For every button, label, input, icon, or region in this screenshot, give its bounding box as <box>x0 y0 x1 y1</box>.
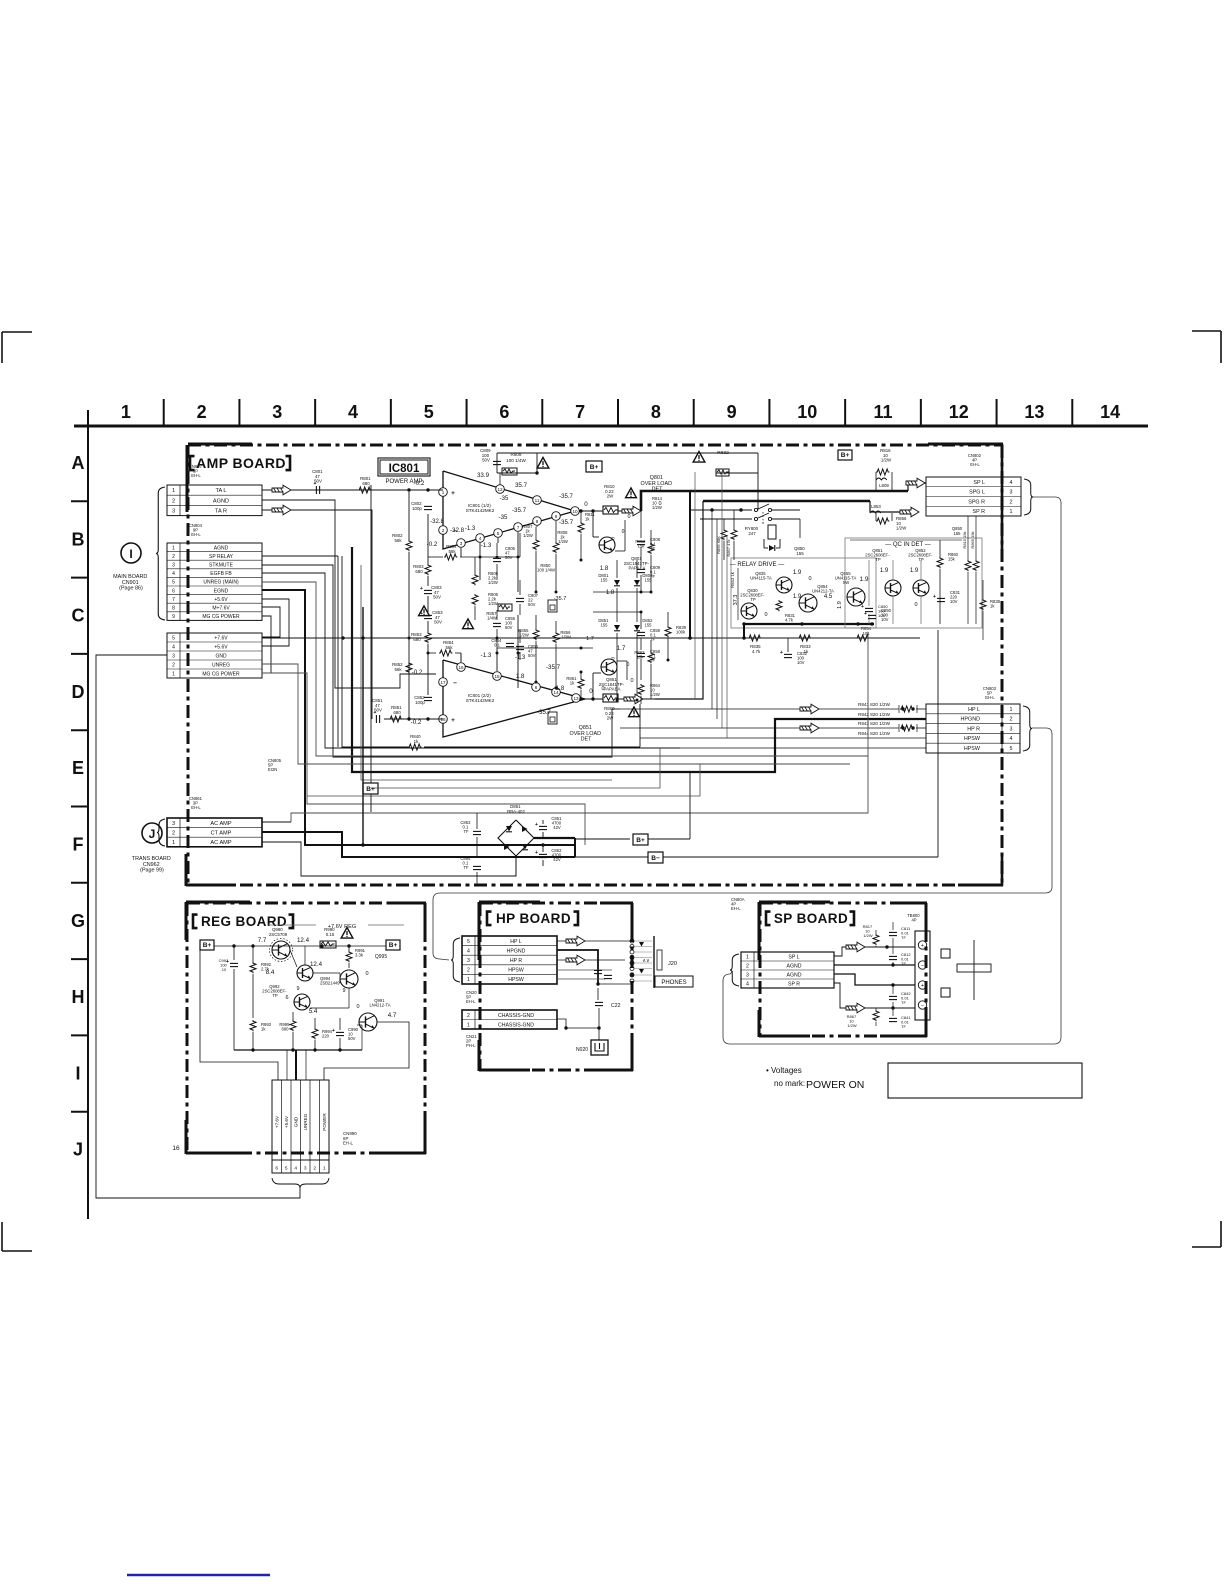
arrow TA R <box>272 505 291 515</box>
resistor R854c <box>856 635 869 641</box>
svg-text:-35.7: -35.7 <box>559 519 574 526</box>
svg-text:6: 6 <box>285 995 288 1001</box>
relay contact upper <box>690 509 752 511</box>
wire vertical x356 <box>355 572 357 574</box>
wire lower output <box>580 698 603 700</box>
capacitor C22 <box>597 988 599 1000</box>
svg-text:0: 0 <box>764 612 767 618</box>
svg-text:+7.6V: +7.6V <box>275 1115 280 1128</box>
warning mark R810 <box>626 488 637 498</box>
svg-text:R841 820 1/2W: R841 820 1/2W <box>858 702 891 707</box>
svg-text:SP R: SP R <box>788 982 800 988</box>
svg-text:0: 0 <box>622 529 625 535</box>
svg-text:3: 3 <box>172 821 175 827</box>
svg-text:+: + <box>535 850 538 856</box>
svg-text:SP R: SP R <box>973 509 986 515</box>
svg-text:5: 5 <box>424 402 434 422</box>
capacitor C853 <box>424 614 432 616</box>
SP BOARD outline <box>760 902 926 905</box>
diode D852 <box>634 625 640 631</box>
warning mark R832 <box>693 452 705 463</box>
wire EGND thick <box>262 590 530 845</box>
transistor Q801 <box>599 537 615 553</box>
arrow SP L out <box>846 942 865 952</box>
net label B+ top <box>586 461 602 472</box>
diode D802 <box>636 560 638 578</box>
svg-text:4: 4 <box>172 645 175 651</box>
transistor Q990 <box>272 941 290 959</box>
wire rail 788 <box>324 748 326 788</box>
svg-text:6: 6 <box>275 1166 278 1172</box>
resistor R864 <box>638 684 644 695</box>
svg-text:11: 11 <box>873 402 892 422</box>
warning mark R860 <box>629 707 640 717</box>
wire y612 tie <box>593 611 641 613</box>
resistor R809 fusible <box>502 468 517 475</box>
svg-text:9: 9 <box>296 986 299 992</box>
wire pin6 rise <box>535 682 537 687</box>
svg-text:I: I <box>129 547 132 561</box>
resistor R995 <box>290 1020 296 1031</box>
HP BOARD title <box>487 912 492 926</box>
wire bottom connect <box>640 703 642 705</box>
svg-text:0: 0 <box>584 501 588 508</box>
grid ruler top <box>74 425 1148 428</box>
svg-text:+5.6V: +5.6V <box>284 1115 289 1128</box>
svg-text:7: 7 <box>517 525 520 530</box>
svg-text:4: 4 <box>1010 480 1013 486</box>
svg-text:35.7: 35.7 <box>515 482 528 489</box>
svg-text:1.8: 1.8 <box>600 565 609 572</box>
wire rail to relay <box>757 473 759 510</box>
wire CN802 to SP BOARD cable <box>723 497 1061 1044</box>
capacitor C812 <box>889 955 897 957</box>
svg-text:13: 13 <box>573 696 579 701</box>
resistor R831 <box>776 600 782 611</box>
wire SP R thick <box>655 501 703 699</box>
connector CN990 <box>272 1080 329 1160</box>
svg-text:4.7: 4.7 <box>388 1012 397 1019</box>
svg-text:16: 16 <box>458 665 464 670</box>
svg-text:B+: B+ <box>590 464 599 471</box>
arrow HP L feed <box>800 704 819 714</box>
resistor R994 <box>312 1028 318 1039</box>
svg-text:1: 1 <box>172 545 175 551</box>
svg-text:R809: R809 <box>511 452 522 457</box>
svg-text:HP R: HP R <box>967 726 980 732</box>
resistor R866 <box>876 518 889 524</box>
wire pin5 drop <box>497 538 499 543</box>
svg-text:6: 6 <box>499 402 509 422</box>
wire rail 780 <box>611 757 613 780</box>
resistors R856b R857b <box>721 529 727 540</box>
svg-text:HP R: HP R <box>510 958 523 964</box>
svg-text:-35.7: -35.7 <box>554 596 567 602</box>
svg-text:2: 2 <box>442 528 445 533</box>
brace CN20 <box>451 938 460 982</box>
svg-text:AGND: AGND <box>214 545 229 551</box>
capacitor C990 <box>336 1031 344 1033</box>
svg-text:2: 2 <box>172 498 175 504</box>
wire pin8 drop <box>536 526 538 527</box>
svg-text:4: 4 <box>172 571 175 577</box>
IC801 pins lower <box>439 678 448 687</box>
capacitor hp1 <box>594 969 602 971</box>
svg-text:0: 0 <box>356 1004 359 1010</box>
svg-text:9: 9 <box>172 614 175 620</box>
wire SP L path <box>834 947 868 956</box>
svg-text:B+: B+ <box>366 786 375 793</box>
svg-text:5: 5 <box>172 636 175 642</box>
svg-text:R865 15k: R865 15k <box>970 531 975 548</box>
resistor R839 <box>665 626 671 637</box>
resistor R802 <box>408 492 410 540</box>
svg-text:B+: B+ <box>636 837 645 844</box>
svg-text:4: 4 <box>479 536 482 541</box>
capacitor C863 <box>473 830 481 832</box>
AMP BOARD outline <box>188 444 1002 447</box>
svg-text:12: 12 <box>949 402 969 422</box>
op-amp IC801 1/2 triangle <box>443 471 575 549</box>
resistor R804 <box>428 556 443 558</box>
wire B+ vertical <box>370 485 372 783</box>
net label B+ reg left <box>200 940 214 950</box>
svg-text:HPSW: HPSW <box>964 736 981 742</box>
resistor R856 <box>553 632 559 643</box>
wire lower rail 682 <box>536 681 593 683</box>
svg-text:5: 5 <box>467 939 470 945</box>
wire QC top <box>799 519 801 538</box>
svg-text:POWER ON: POWER ON <box>806 1079 864 1091</box>
wire EGFB FB <box>262 573 680 748</box>
svg-text:11: 11 <box>535 498 540 503</box>
svg-text:CT AMP: CT AMP <box>211 830 232 836</box>
wire QC verticals <box>868 560 870 606</box>
arrow to SP R <box>900 507 919 517</box>
capacitor C809 <box>493 460 501 462</box>
svg-text:AC AMP: AC AMP <box>210 840 231 846</box>
capacitor C894 <box>473 865 481 867</box>
warning mark mid <box>463 619 474 629</box>
svg-text:10: 10 <box>797 402 817 422</box>
resistor R860 <box>603 694 618 702</box>
svg-text:3: 3 <box>272 402 282 422</box>
svg-text:155: 155 <box>954 531 962 536</box>
brace CN802 <box>1024 479 1033 515</box>
wire pin4 drop <box>479 543 481 580</box>
capacitor C864 <box>506 642 514 644</box>
wire AC AMP lower <box>262 842 516 876</box>
legend box <box>888 1063 1082 1098</box>
svg-text:7.7: 7.7 <box>258 937 267 944</box>
connector CN21 table <box>462 1010 557 1029</box>
svg-text:+: + <box>451 490 455 497</box>
svg-text:B+: B+ <box>841 452 850 459</box>
wire CN803 to HP BOARD cable <box>433 728 1052 960</box>
svg-text:AGND: AGND <box>787 973 802 979</box>
capacitor C808 C809b column <box>640 511 642 538</box>
relay drive box <box>731 558 876 628</box>
wire +7.6V REG header <box>268 924 316 926</box>
svg-text:-32.8: -32.8 <box>450 527 465 534</box>
svg-text:R843 1k: R843 1k <box>730 571 735 588</box>
svg-text:EGND: EGND <box>214 588 229 594</box>
resistor R855 <box>533 629 539 640</box>
resistor R992 <box>250 962 256 973</box>
wire CT AMP B- <box>262 832 575 857</box>
capacitor C841 <box>889 1017 897 1019</box>
svg-text:1: 1 <box>172 840 175 846</box>
svg-text:AMP BOARD: AMP BOARD <box>196 455 286 471</box>
wire MG CG POWER loop <box>262 616 271 673</box>
svg-text:0: 0 <box>601 686 604 692</box>
wire reg to connector <box>200 946 278 1080</box>
wire +5.6V loop <box>262 599 289 646</box>
svg-text:2: 2 <box>172 663 175 669</box>
svg-text:1: 1 <box>746 955 749 961</box>
svg-text:-0.2: -0.2 <box>411 719 422 726</box>
svg-text:1: 1 <box>323 1166 326 1172</box>
svg-text:TA L: TA L <box>215 488 226 494</box>
svg-text:3: 3 <box>1010 490 1013 496</box>
svg-text:HPSW: HPSW <box>508 977 524 983</box>
capacitor C811 <box>889 931 897 933</box>
svg-text:R815 15k: R815 15k <box>962 531 967 548</box>
svg-text:UNREG: UNREG <box>212 663 230 669</box>
svg-text:G: G <box>71 911 85 931</box>
wire GND return <box>96 655 300 1198</box>
svg-text:L809: L809 <box>879 483 889 488</box>
svg-text:−: − <box>921 1003 924 1009</box>
resistor R991 <box>346 951 352 962</box>
capacitor C801 <box>315 486 317 494</box>
svg-text:D: D <box>72 682 85 702</box>
svg-text:14: 14 <box>1100 402 1120 422</box>
resistor R854 <box>428 652 436 654</box>
transistor Q835 <box>776 577 792 593</box>
wire pin15 rise <box>496 648 498 671</box>
svg-text:2: 2 <box>197 402 207 422</box>
wire AGND3 <box>834 974 915 985</box>
svg-text:1: 1 <box>467 1022 470 1028</box>
resistor R862 <box>648 652 654 663</box>
svg-text:IC801 (1/2) STK4142MK2: IC801 (1/2) STK4142MK2 <box>466 503 495 513</box>
inductor L809 <box>876 478 887 480</box>
wire supply 796 <box>307 764 700 796</box>
svg-text:1: 1 <box>1010 509 1013 515</box>
svg-text:0: 0 <box>365 971 368 977</box>
svg-text:-0.2: -0.2 <box>414 480 425 487</box>
op-amp IC801 label <box>378 458 430 476</box>
svg-text:GND: GND <box>294 1116 299 1127</box>
QC IN DET box <box>845 538 982 628</box>
capacitor C852 <box>424 696 432 698</box>
svg-text:I: I <box>75 1063 80 1083</box>
svg-text:0: 0 <box>808 576 811 582</box>
svg-text:12.4: 12.4 <box>310 961 323 968</box>
svg-text:MG CG POWER: MG CG POWER <box>202 614 240 620</box>
svg-text:5: 5 <box>1010 746 1013 752</box>
svg-text:TA R: TA R <box>215 509 227 515</box>
svg-text:-1.3: -1.3 <box>515 655 526 661</box>
wire misc right verticals <box>867 624 869 632</box>
wire relay drive bus <box>744 623 874 625</box>
junctions on long nets <box>408 637 411 640</box>
svg-text:9: 9 <box>727 402 737 422</box>
bridge rectifier D851 RBA-402 <box>498 820 534 856</box>
svg-text:+5.6V: +5.6V <box>214 597 228 603</box>
svg-text:0: 0 <box>630 678 633 684</box>
capacitor C842 <box>889 995 897 997</box>
svg-text:+: + <box>451 717 455 724</box>
svg-text:3: 3 <box>460 541 463 546</box>
svg-text:10: 10 <box>572 509 578 514</box>
svg-text:∧∨: ∧∨ <box>642 958 650 964</box>
svg-text:1.8: 1.8 <box>606 590 615 596</box>
net label B+ bottom <box>575 838 630 840</box>
wire HPGND jack <box>557 950 598 984</box>
diode D801 <box>616 560 618 578</box>
connector CN805 <box>167 633 262 678</box>
wire TA R input <box>262 510 372 719</box>
svg-text:1.9: 1.9 <box>910 568 919 574</box>
svg-text:1: 1 <box>172 672 175 678</box>
label PHONES <box>655 976 693 987</box>
svg-text:POWER: POWER <box>322 1113 327 1131</box>
capacitor C851 main <box>539 825 547 827</box>
svg-text:+: + <box>420 586 423 592</box>
wire reg rail <box>214 945 386 947</box>
wire HP bundle stubs <box>612 708 620 710</box>
svg-text:2: 2 <box>1010 717 1013 723</box>
resistor R806 <box>472 574 478 585</box>
svg-text:4: 4 <box>294 1166 297 1172</box>
svg-text:9: 9 <box>555 514 558 519</box>
wire bundle vertical <box>689 491 691 638</box>
svg-text:J: J <box>149 827 156 841</box>
svg-text:3: 3 <box>172 509 175 515</box>
svg-text:1.9: 1.9 <box>837 601 843 609</box>
relay dotted link <box>762 512 764 523</box>
svg-text:5: 5 <box>497 531 500 536</box>
svg-text:1: 1 <box>121 402 131 422</box>
transistor Q830 <box>741 603 757 619</box>
AMP BOARD title <box>190 456 195 470</box>
svg-text:+: + <box>780 650 783 656</box>
capacitor C831 <box>937 597 945 599</box>
svg-text:IC801 (2/2) STK4142MK2: IC801 (2/2) STK4142MK2 <box>466 693 495 703</box>
wire reg internal <box>290 950 297 967</box>
ground N020 <box>591 1040 608 1055</box>
svg-text:1: 1 <box>467 977 470 983</box>
HP BOARD outline <box>480 902 632 905</box>
wire y592 tie <box>497 591 593 593</box>
svg-text:6: 6 <box>535 685 538 690</box>
svg-text:3: 3 <box>304 1166 307 1172</box>
svg-text:J20: J20 <box>668 961 677 967</box>
svg-text:R844 820 1/2W: R844 820 1/2W <box>858 731 891 736</box>
svg-text:4: 4 <box>467 948 470 954</box>
svg-text:+5.6V: +5.6V <box>214 645 228 651</box>
svg-text:H: H <box>72 987 85 1007</box>
arrow lower output <box>624 694 643 704</box>
svg-text:SP L: SP L <box>788 955 799 961</box>
svg-text:12: 12 <box>497 487 503 492</box>
crop mark top-left <box>2 331 32 333</box>
resistor R805 <box>472 594 478 605</box>
transistor Q852b <box>913 580 929 596</box>
wire pin16 rise <box>460 653 462 662</box>
svg-text:R835 4.7k: R835 4.7k <box>750 644 762 654</box>
transistor Q855 <box>847 588 865 606</box>
svg-text:— RELAY DRIVE —: — RELAY DRIVE — <box>730 562 784 568</box>
crop mark bottom-left <box>1 1222 3 1251</box>
svg-text:5.4: 5.4 <box>309 1008 318 1015</box>
svg-text:2: 2 <box>313 1166 316 1172</box>
resistor R833 <box>798 635 811 641</box>
svg-text:5: 5 <box>285 1166 288 1172</box>
transistor Q854 <box>799 594 817 612</box>
svg-text:3: 3 <box>1010 726 1013 732</box>
warning mark R857 <box>419 606 430 616</box>
svg-text:MG CG POWER: MG CG POWER <box>202 672 240 678</box>
svg-text:EGFB FB: EGFB FB <box>210 571 232 577</box>
wire reg bottom rail <box>234 1049 362 1051</box>
crop mark bottom-right <box>1220 1221 1222 1247</box>
svg-text:1: 1 <box>172 488 175 494</box>
svg-text:16: 16 <box>172 1145 180 1152</box>
wire lower comb <box>517 615 519 688</box>
svg-text:3: 3 <box>172 563 175 569</box>
svg-text:1.7: 1.7 <box>617 645 626 652</box>
crop mark top-right <box>1192 330 1221 332</box>
arrow HP R feed <box>800 723 819 733</box>
svg-text:8: 8 <box>536 519 539 524</box>
warning mark top <box>537 458 549 469</box>
svg-text:3: 3 <box>172 654 175 660</box>
phones jack J20 <box>630 939 634 943</box>
resistor R812 <box>648 543 654 554</box>
REG BOARD title <box>193 915 198 929</box>
svg-text:SPG L: SPG L <box>969 490 985 496</box>
svg-text:B+: B+ <box>203 942 212 949</box>
svg-text:-35.7: -35.7 <box>546 664 561 671</box>
svg-text:15: 15 <box>494 674 500 679</box>
svg-text:HPGND: HPGND <box>507 948 526 954</box>
svg-text:−: − <box>921 963 924 969</box>
svg-text:HP L: HP L <box>968 707 980 713</box>
resistor R832 on rail <box>716 469 729 476</box>
capacitor C832 <box>787 638 789 652</box>
svg-text:9: 9 <box>342 988 345 994</box>
svg-text:R990 0.15: R990 0.15 <box>324 927 336 937</box>
wire TA L input <box>262 489 443 491</box>
resistor R857 <box>498 604 512 611</box>
svg-text:M+7.6V: M+7.6V <box>212 606 230 612</box>
svg-text:7: 7 <box>172 597 175 603</box>
net label B+ reg right <box>386 940 400 950</box>
svg-text:6: 6 <box>172 588 175 594</box>
svg-text:PHONES: PHONES <box>661 980 686 986</box>
wire drop 560 <box>559 796 561 830</box>
diode D851 <box>614 625 620 631</box>
node I : MAIN BOARD CN901 <box>121 543 141 563</box>
svg-text:HP L: HP L <box>510 939 522 945</box>
svg-text:R842 820 1/2W: R842 820 1/2W <box>858 712 891 717</box>
svg-text:HPGND: HPGND <box>961 717 981 723</box>
wire HPGND thick <box>352 547 926 772</box>
arrow HP L <box>557 940 632 942</box>
